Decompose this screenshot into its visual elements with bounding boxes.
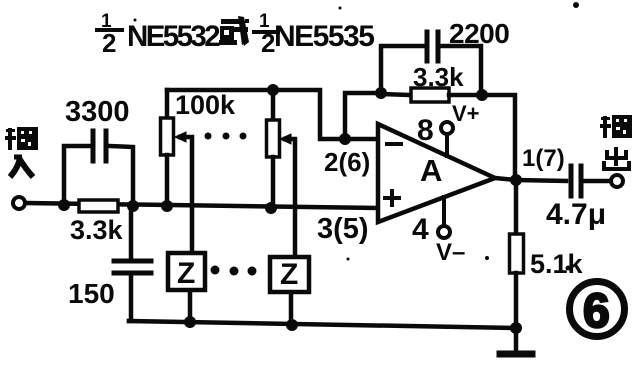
svg-text:Z: Z (177, 257, 195, 290)
wire 2200 cap branch (381, 46, 424, 93)
capacitor C 2200 (427, 32, 438, 61)
label 1/2 fraction first (95, 11, 124, 58)
block Z1 (168, 253, 205, 290)
wire feedback node link to inverting input (345, 93, 381, 139)
svg-text:4: 4 (412, 213, 429, 246)
wire 150 cap to bottom bus (129, 275, 131, 321)
wiper arrow of first 100k to Z1 (180, 137, 192, 253)
wire feedback resistor row (381, 94, 411, 95)
svg-text:3(5): 3(5) (317, 213, 369, 245)
ellipsis dots between 100k resistors (205, 133, 247, 140)
wire Z1 bottom lead (188, 290, 193, 322)
svg-text:3300: 3300 (65, 96, 130, 128)
input terminal (13, 197, 25, 209)
wire 150 cap branch down (129, 208, 134, 259)
svg-text:2200: 2200 (449, 18, 509, 49)
label shu (output) (600, 115, 632, 138)
ellipsis dots between Z blocks (211, 266, 257, 276)
capacitor C 4.7u (571, 166, 581, 196)
op-amp U A (378, 124, 495, 222)
wire to output terminal (584, 179, 610, 184)
svg-text:A: A (420, 153, 442, 188)
svg-text:NE5535: NE5535 (274, 20, 374, 53)
scan speckles (noise) (134, 2, 580, 271)
op-amp minus sign (387, 142, 401, 146)
capacitor C 150 (114, 261, 151, 273)
resistor R 3.3k (feedback) (411, 88, 449, 102)
resistor R 3.3k (input, in series) (79, 200, 118, 212)
svg-text:5.1k: 5.1k (530, 249, 584, 279)
svg-text:150: 150 (68, 278, 115, 309)
svg-text:3.3k: 3.3k (413, 62, 464, 92)
label huo (or) character (219, 16, 249, 46)
svg-text:8: 8 (417, 114, 434, 147)
ground (514, 328, 519, 352)
wire main input line (27, 203, 377, 208)
svg-text:2(6): 2(6) (324, 147, 370, 177)
svg-text:V–: V– (436, 239, 465, 266)
svg-text:1(7): 1(7) (522, 145, 565, 172)
wire bottom ground bus (129, 321, 517, 328)
label 1/2 fraction second (252, 11, 280, 58)
label chu (output) (604, 147, 629, 169)
svg-text:100k: 100k (175, 90, 236, 120)
wire Z2 bottom lead (289, 292, 294, 325)
pin 4 V- terminal (442, 197, 446, 225)
resistor R 100k second (adjustable) (271, 90, 276, 120)
figure number circled 6 (570, 282, 625, 339)
svg-text:Z: Z (280, 258, 298, 291)
label ru (input) (10, 157, 33, 177)
wire output node (495, 178, 566, 181)
capacitor C 3300 (93, 131, 106, 161)
wire feedback to output node (482, 95, 515, 178)
svg-text:V+: V+ (452, 101, 480, 126)
op-amp plus sign (385, 191, 399, 205)
label shu (input) (5, 127, 38, 150)
resistor R 100k first (adjustable) (165, 90, 170, 118)
wire top bus of 100k resistors (167, 90, 377, 139)
svg-text:NE5532: NE5532 (127, 20, 220, 53)
resistor R 5.1k (514, 180, 519, 234)
svg-text:3.3k: 3.3k (70, 215, 124, 245)
wiper arrow of second 100k to Z2 (285, 139, 295, 257)
svg-text:2: 2 (102, 28, 116, 58)
svg-text:6: 6 (583, 285, 610, 338)
block Z2 (270, 257, 309, 292)
svg-text:4.7μ: 4.7μ (546, 198, 606, 231)
wire 3300 branch right vertical (109, 146, 133, 205)
output terminal (611, 175, 623, 187)
pin 8 V+ terminal (445, 135, 449, 156)
wire 3300 branch left vertical (64, 146, 90, 205)
